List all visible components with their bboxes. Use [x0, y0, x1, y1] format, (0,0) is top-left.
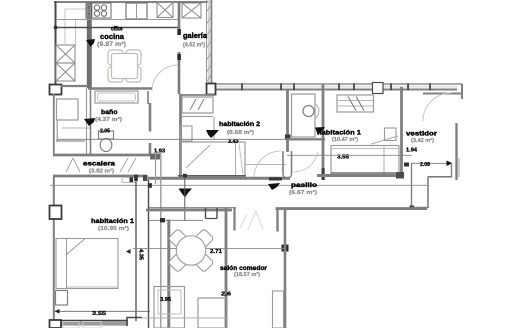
svg-text:2.08: 2.08: [420, 162, 430, 168]
top wall: [180, 94, 215, 96]
east wall: [400, 87, 403, 177]
closet side line: [213, 117, 215, 140]
light rects below wall: [63, 322, 79, 328]
pillar mid: [50, 206, 62, 220]
west wall: [322, 84, 325, 180]
svg-text:(3.82 m²): (3.82 m²): [89, 168, 114, 174]
galeria east wall hatched column: [206, 0, 208, 83]
dim line y311: [55, 310, 150, 312]
bed: [331, 146, 399, 177]
shower rect: [57, 99, 79, 120]
svg-text:(3.42 m²): (3.42 m²): [411, 137, 434, 144]
west wall: [53, 177, 55, 321]
svg-text:3.55: 3.55: [92, 311, 106, 317]
baño2 south wall: [286, 138, 325, 140]
closet: [337, 95, 374, 112]
band hatch marks: [66, 158, 136, 172]
sideboard: [154, 287, 185, 328]
stove unit: [86, 3, 111, 18]
terrace door arc: [423, 93, 451, 121]
baño door arrow: [84, 118, 95, 126]
svg-text:(6.67 m²): (6.67 m²): [289, 189, 317, 196]
svg-text:2.6: 2.6: [221, 291, 231, 297]
pillar at wing start: [207, 84, 216, 95]
bed: [56, 239, 118, 289]
svg-text:cocina: cocina: [100, 32, 125, 41]
svg-text:galería: galería: [183, 33, 207, 40]
svg-text:escalera: escalera: [83, 161, 115, 168]
svg-text:2.05: 2.05: [100, 129, 110, 135]
band top wall: [53, 154, 160, 157]
svg-text:4.35: 4.35: [138, 249, 144, 260]
svg-text:baño: baño: [101, 109, 118, 116]
pasillo door arc: [294, 152, 318, 172]
pillar bottom: [50, 320, 62, 328]
svg-text:3.43: 3.43: [228, 139, 239, 145]
bed: [181, 142, 245, 176]
west wall: [179, 94, 182, 177]
nightstand: [181, 126, 193, 141]
svg-text:1.94: 1.94: [406, 148, 417, 154]
south wall: [317, 174, 403, 177]
svg-text:(4.37 m²): (4.37 m²): [95, 116, 122, 123]
door jamb blocks: [177, 29, 181, 35]
hab2 door arc: [254, 151, 281, 178]
wardrobe closets left (X boxes): [56, 45, 75, 81]
left wall lower: [53, 94, 55, 156]
svg-text:habitación 2: habitación 2: [219, 121, 260, 128]
baño east wall: [149, 103, 152, 132]
svg-text:(4.62 m²): (4.62 m²): [183, 42, 205, 49]
toilet: [99, 131, 114, 139]
nightstand: [385, 128, 397, 141]
long thin line y185: [50, 184, 427, 186]
closet X1: [157, 3, 173, 18]
wall left: [55, 1, 57, 85]
jamb box in wall: [373, 83, 384, 94]
door leaf rect: [273, 291, 284, 328]
counter front edge: [56, 19, 178, 21]
band bottom wall: [53, 175, 147, 178]
line y220: [149, 219, 203, 221]
door arrow: [206, 130, 219, 138]
door frame: [282, 151, 284, 174]
niche / chimney: [233, 208, 235, 231]
closet X2: [182, 3, 201, 18]
svg-text:vestidor: vestidor: [406, 130, 437, 137]
door arrow: [315, 127, 325, 135]
svg-text:(10.47 m²): (10.47 m²): [332, 136, 358, 143]
kitchen table + chairs: [108, 50, 141, 82]
wall line y27: [55, 27, 179, 29]
kitchen door arrow: [86, 39, 95, 47]
corridor door arrow: [179, 189, 193, 198]
svg-text:salón comedor: salón comedor: [220, 265, 267, 272]
corner dark: [282, 245, 289, 252]
wall divider x179: [178, 1, 181, 31]
dim line y163: [412, 162, 452, 164]
junction block: [54, 26, 57, 29]
dim line y155: [287, 154, 412, 156]
wall top: [54, 1, 211, 3]
kitchen door arc: [152, 65, 178, 91]
svg-text:(10.95 m²): (10.95 m²): [98, 225, 129, 232]
wall ticks: [241, 83, 431, 90]
wall kitchen west double: [87, 2, 90, 88]
wall from pillar east: [61, 85, 88, 87]
east wall: [284, 209, 287, 328]
top wall left part: [146, 209, 232, 212]
svg-text:(18.57 m²): (18.57 m²): [234, 271, 260, 278]
dining table: [168, 229, 214, 273]
isolated right wall line: [458, 158, 460, 177]
counter corner lines: [65, 9, 86, 44]
cabinet box: [126, 3, 147, 19]
junction dot: [148, 183, 152, 188]
svg-text:3.95: 3.95: [160, 297, 171, 303]
nightstand: [56, 291, 68, 306]
baño north wall: [88, 87, 152, 90]
svg-text:habitación 1: habitación 1: [317, 130, 361, 137]
pillar: [50, 85, 62, 95]
pasillo arrow: [268, 183, 280, 190]
svg-text:(9.87 m²): (9.87 m²): [97, 41, 126, 48]
right notch: [461, 84, 463, 99]
svg-text:2.71: 2.71: [210, 249, 222, 255]
svg-text:pasillo: pasillo: [291, 182, 317, 189]
baño west wall double: [86, 88, 88, 154]
north wall right part: [276, 207, 428, 210]
bathtub: [95, 91, 138, 103]
closet: [182, 97, 213, 113]
bottom wall: [52, 321, 128, 326]
svg-text:habitación 1: habitación 1: [91, 218, 134, 225]
bottom wall: [148, 177, 290, 180]
svg-text:(8.68 m²): (8.68 m²): [227, 129, 254, 136]
wall x226: [225, 208, 228, 328]
east wall: [455, 123, 457, 180]
rect furniture: [198, 298, 227, 328]
door frame box: [205, 208, 207, 219]
terrace steps: [451, 163, 453, 177]
east wall: [286, 90, 289, 152]
dim line y248: [133, 248, 285, 250]
